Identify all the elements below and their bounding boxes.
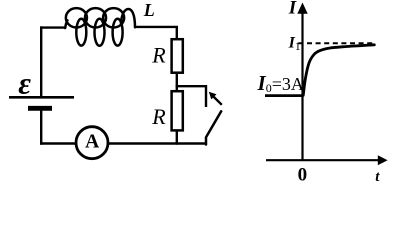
wire left vertical battery to bottom corner	[40, 108, 42, 144]
wire top horizontal left (corner to inductor)	[40, 26, 66, 28]
svg-text:I: I	[288, 0, 297, 19]
wire top horizontal right (inductor to right corner, down to R1)	[135, 27, 177, 39]
wire left vertical from top corner down to battery top plate	[40, 26, 42, 97]
dashed asymptote line at I1 level (with axis tick)	[298, 42, 375, 44]
svg-text:0: 0	[298, 164, 308, 185]
inductor L1 coil	[65, 8, 135, 46]
svg-text:L: L	[143, 0, 155, 20]
I0 level line	[265, 94, 303, 97]
graph x-axis t with arrowhead	[266, 155, 388, 165]
svg-text:R: R	[151, 42, 166, 67]
battery EMF source (long top plate + short thick bottom plate)	[9, 97, 74, 108]
wire bottom horizontal rail	[40, 142, 206, 144]
switch S1 blade (open)	[206, 111, 221, 144]
switch motion arrow	[209, 92, 222, 105]
graph y-axis I with arrowhead	[297, 3, 307, 161]
ammeter A1 circle	[76, 127, 108, 159]
svg-text:R: R	[151, 104, 166, 129]
wire R2 bottom to bottom rail	[176, 130, 178, 144]
resistor R1	[172, 39, 183, 72]
wire junction to switch stub	[176, 85, 206, 107]
resistor R2	[172, 91, 183, 130]
wire between resistors	[176, 74, 178, 92]
svg-text:ε: ε	[18, 66, 31, 101]
current curve I(t)	[303, 45, 374, 96]
svg-text:A: A	[85, 131, 99, 152]
svg-text:I0=3A: I0=3A	[257, 71, 304, 95]
